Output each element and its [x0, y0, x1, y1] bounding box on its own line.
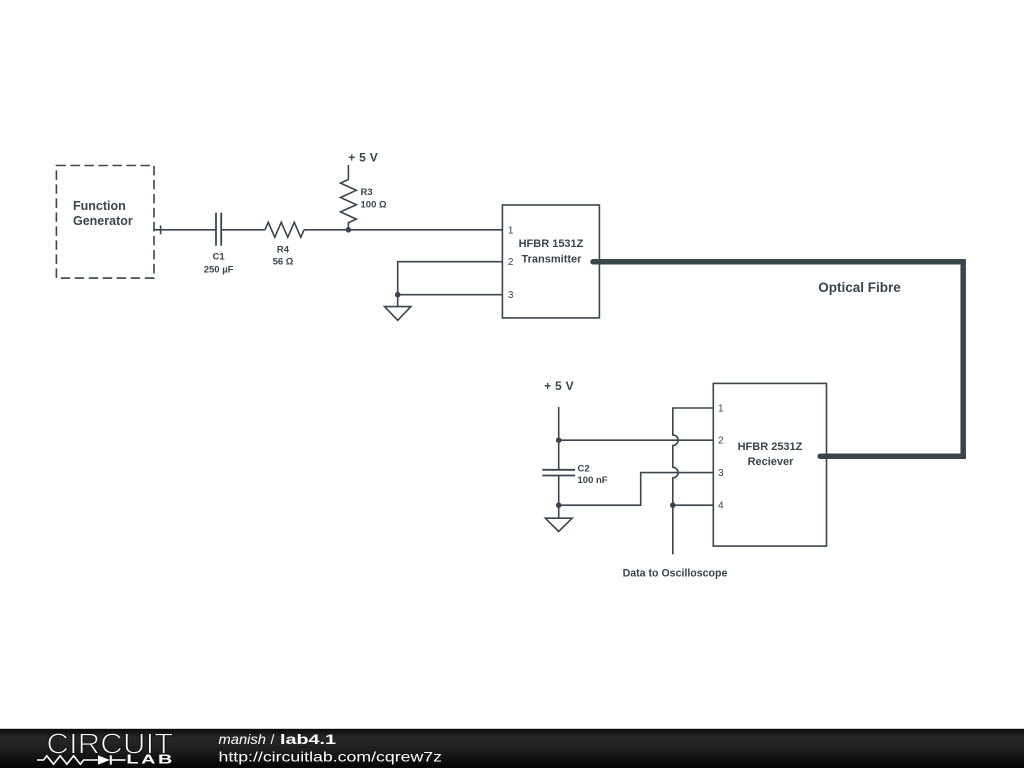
wire R4 to transmitter pin 1 [304, 229, 502, 231]
svg-text:1: 1 [508, 225, 514, 236]
svg-text:250 µF: 250 µF [204, 264, 234, 275]
svg-text:100 Ω: 100 Ω [361, 199, 387, 210]
junction at +5V node [556, 437, 562, 443]
svg-text:/: / [271, 731, 275, 747]
ground symbol (receiver) [545, 518, 572, 531]
function generator output pin tick [160, 225, 162, 234]
C1 value label [204, 252, 234, 276]
CircuitLab logo diode [98, 755, 126, 764]
svg-text:Optical Fibre: Optical Fibre [818, 280, 901, 295]
wire bus pin1 to data stub with hops [673, 408, 714, 554]
optical fibre thick wire [593, 262, 963, 457]
svg-text:Generator: Generator [73, 214, 133, 228]
svg-text:R4: R4 [277, 244, 290, 255]
ground stub (receiver) [558, 505, 560, 518]
wire C2 to ground junction [558, 476, 560, 506]
svg-text:manish: manish [219, 731, 267, 747]
wire bus to receiver pin 4 [673, 504, 714, 506]
function generator label [73, 199, 133, 228]
wire C1 to R4 [221, 229, 265, 231]
svg-text:HFBR 2531Z: HFBR 2531Z [738, 441, 803, 453]
svg-text:3: 3 [718, 468, 724, 479]
junction at transmitter ground [395, 292, 401, 298]
svg-text:LAB: LAB [126, 752, 174, 767]
junction at receiver ground node [556, 502, 562, 508]
svg-text:4: 4 [718, 501, 724, 512]
wire transmitter pin 3 to ground [398, 294, 503, 296]
svg-text:2: 2 [718, 436, 724, 447]
svg-text:HFBR 1531Z: HFBR 1531Z [519, 238, 584, 250]
function generator box FG [56, 166, 154, 279]
receiver U2 box [713, 383, 826, 546]
svg-text:C2: C2 [578, 463, 590, 474]
node junction at R3 [346, 227, 352, 233]
svg-text:C1: C1 [213, 252, 226, 263]
svg-text:R3: R3 [361, 187, 373, 198]
C2 value label [578, 463, 608, 486]
svg-text:100 nF: 100 nF [578, 475, 608, 486]
ground stub (transmitter) [397, 295, 399, 307]
svg-text:Reciever: Reciever [748, 456, 795, 468]
svg-text:+ 5 V: + 5 V [544, 379, 574, 393]
svg-text:3: 3 [508, 290, 514, 301]
capacitor C1 [216, 213, 221, 246]
transmitter U1 box [502, 205, 599, 318]
junction at bus pin 4 [670, 502, 676, 508]
wire R3 top stub to +5V [347, 165, 349, 180]
svg-text:Transmitter: Transmitter [522, 253, 583, 265]
CircuitLab logo resistor zigzag [37, 756, 98, 764]
wire +5V node to receiver pin 2 [559, 439, 714, 441]
svg-text:56 Ω: 56 Ω [273, 257, 294, 268]
wire transmitter pin 2 to ground [398, 262, 503, 295]
capacitor C2 [542, 470, 575, 476]
ground symbol (transmitter) [385, 307, 411, 321]
svg-text:Function: Function [73, 199, 126, 213]
svg-text:2: 2 [508, 257, 514, 268]
wire +5V stub to junction [558, 407, 560, 440]
svg-text:1: 1 [718, 404, 724, 415]
R3 value label [361, 187, 387, 210]
resistor R4 [265, 222, 304, 237]
wire junction to C2 [558, 440, 560, 470]
svg-text:lab4.1: lab4.1 [280, 731, 336, 747]
svg-text:+ 5 V: + 5 V [348, 151, 378, 165]
svg-text:http://circuitlab.com/cqrew7z: http://circuitlab.com/cqrew7z [219, 748, 443, 764]
wire ground node to receiver pin 3 [559, 473, 714, 506]
receiver U2 label [738, 441, 803, 468]
transmitter U1 label [519, 238, 584, 265]
wire FG to C1 [154, 229, 216, 231]
R4 value label [273, 244, 294, 267]
svg-text:Data to Oscilloscope: Data to Oscilloscope [623, 568, 728, 580]
resistor R3 [341, 180, 357, 231]
